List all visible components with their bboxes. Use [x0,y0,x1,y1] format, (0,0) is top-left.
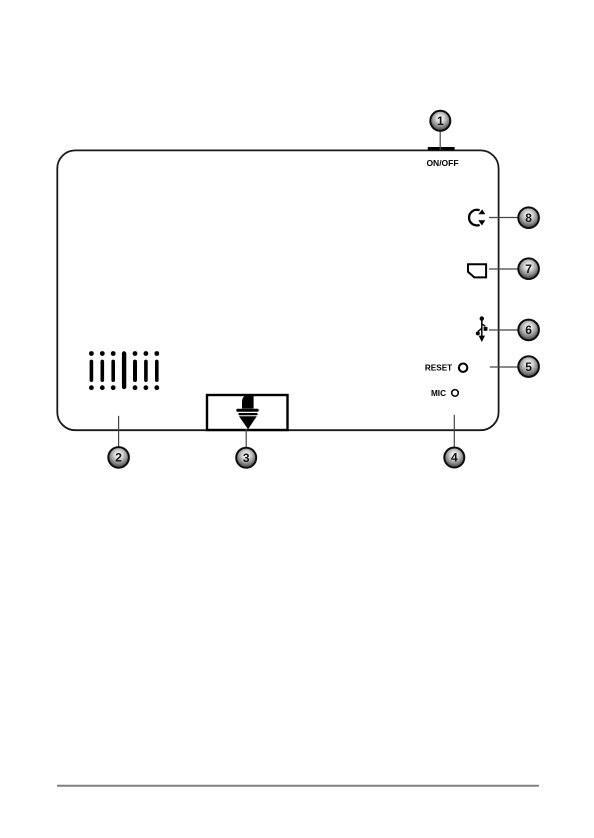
reset hole [459,364,467,372]
leader line 8 [489,217,518,219]
SD card icon [468,264,486,277]
callout ball 4 [444,448,464,468]
callout ball 7 [518,258,539,279]
svg-text:3: 3 [243,451,250,465]
leader line 6 [489,329,518,331]
stylus holder slot [207,395,288,430]
svg-text:2: 2 [115,451,122,465]
mic hole [452,390,459,397]
svg-text:4: 4 [451,451,458,465]
speaker grille [89,351,159,390]
leader line 7 [489,268,518,270]
leader line 3 [245,429,247,448]
leader line 1 [439,131,441,150]
callout ball 3 [236,448,256,468]
rotation icon [469,209,485,225]
svg-text:7: 7 [525,262,532,276]
leader line 2 [118,416,120,447]
svg-text:8: 8 [525,211,532,225]
USB icon [476,316,488,342]
svg-text:5: 5 [525,360,532,374]
stylus icon [236,396,258,430]
svg-text:RESET: RESET [425,364,452,373]
svg-text:1: 1 [437,114,444,128]
power button bar [428,147,455,150]
leader line 5 [490,366,518,368]
callout ball 1 [430,111,450,131]
svg-text:MIC: MIC [431,389,446,398]
footer rule [57,785,539,787]
svg-text:ON/OFF: ON/OFF [426,158,458,168]
callout ball 6 [518,320,539,341]
callout ball 8 [518,207,539,228]
device outline [57,150,498,430]
svg-text:6: 6 [525,323,532,337]
callout ball 5 [518,356,539,377]
leader line 4 [453,415,455,447]
callout ball 2 [108,447,129,468]
